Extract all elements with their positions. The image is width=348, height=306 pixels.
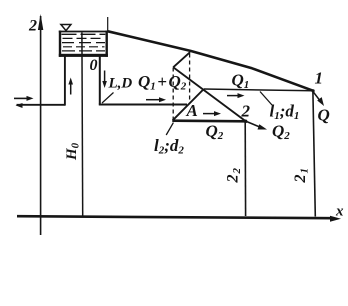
main pipe horizontal Q1+Q2: [99, 104, 187, 106]
point 2 junction: [244, 120, 248, 124]
svg-text:Q1: Q1: [232, 71, 250, 92]
svg-text:Q2: Q2: [272, 122, 290, 143]
z2 dimension line: [244, 122, 246, 216]
svg-text:Q2: Q2: [206, 122, 224, 143]
flow arrow Q1: [227, 95, 240, 97]
svg-text:l2;d2: l2;d2: [154, 136, 184, 157]
svg-text:L,D: L,D: [108, 76, 133, 92]
z axis: [40, 16, 42, 235]
tank water hatching: [62, 33, 106, 35]
riser flow arrow: [70, 81, 72, 95]
outflow arrow Q2: [247, 122, 262, 128]
energy line from tank to point 1: [108, 31, 313, 90]
leader to l2;d2: [166, 123, 173, 135]
svg-text:1: 1: [315, 69, 324, 88]
piezometric connector: [173, 52, 190, 67]
piezometric line branch 2: [173, 67, 245, 121]
svg-text:22: 22: [225, 168, 244, 184]
leader to l1;d1: [260, 92, 272, 106]
svg-text:Q1+Q2: Q1+Q2: [138, 72, 187, 93]
flow arrow Q1+Q2: [146, 99, 161, 101]
branch pipe 1 rising segment: [173, 89, 204, 120]
dashed drop line left: [172, 68, 174, 120]
leader to L,D: [102, 93, 114, 104]
x axis: [17, 216, 333, 218]
svg-text:2: 2: [241, 102, 251, 121]
svg-text:21: 21: [292, 168, 311, 184]
outlet pipe vertical: [99, 57, 101, 105]
outflow arrow Q: [314, 92, 321, 101]
branch pipe 2: [172, 119, 246, 122]
dashed drop line right: [189, 54, 191, 104]
branch pipe 1 horizontal: [204, 89, 313, 91]
inflow arrow upper: [14, 97, 29, 99]
flow arrow at A: [203, 113, 216, 115]
z1 dimension line: [313, 92, 315, 217]
tank walls: [59, 31, 61, 57]
point 1 junction: [312, 89, 315, 92]
svg-text:Q: Q: [318, 106, 330, 125]
supply riser pipe: [64, 55, 66, 106]
piezometer stub: [107, 17, 109, 31]
water surface symbol: [61, 25, 71, 31]
flow arrow down L,D: [104, 71, 106, 85]
svg-text:x: x: [335, 204, 344, 220]
svg-text:l1;d1: l1;d1: [270, 102, 300, 123]
H0 dimension line: [81, 33, 84, 217]
svg-text:A: A: [186, 101, 198, 120]
inflow pipe: [17, 104, 65, 106]
tank water surface line: [59, 31, 108, 33]
svg-text:2: 2: [28, 18, 37, 35]
svg-text:0: 0: [90, 57, 98, 74]
svg-text:H0: H0: [64, 142, 82, 161]
